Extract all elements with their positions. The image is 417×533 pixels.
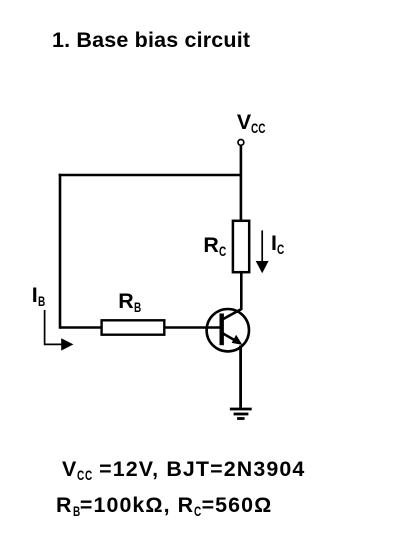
wire resistor RC to transistor collector [240, 272, 243, 310]
current IB label [32, 285, 48, 306]
current IC label [271, 233, 287, 254]
value label line 2: RB=100k, RC=560 [56, 495, 272, 516]
transistor Q1 base bar [219, 314, 223, 346]
wire transistor emitter to ground [239, 346, 242, 409]
current arrow IC [256, 230, 269, 273]
ground [230, 409, 252, 419]
resistor RB label [118, 291, 143, 312]
resistor RB [102, 320, 165, 334]
wire top horizontal [59, 174, 241, 177]
transistor Q1 circle [207, 309, 249, 351]
terminal Vcc [238, 140, 244, 146]
transistor Q1 collector diagonal [222, 309, 242, 320]
wire node A to resistor RC [240, 175, 243, 221]
value label line 1: Vcc = 12V, BJT=2N3904 [62, 459, 305, 480]
resistor RC label [203, 235, 228, 256]
node Vcc label [237, 112, 271, 133]
title [52, 30, 250, 52]
current arrow IB [45, 310, 74, 351]
wire resistor RB to transistor base [165, 326, 222, 329]
wire base horizontal left segment [60, 326, 101, 329]
transistor Q1 emitter diagonal with arrowhead [222, 333, 243, 345]
wire Vcc terminal to node A [240, 146, 243, 175]
resistor RC [233, 221, 249, 272]
wire left vertical [59, 174, 62, 329]
